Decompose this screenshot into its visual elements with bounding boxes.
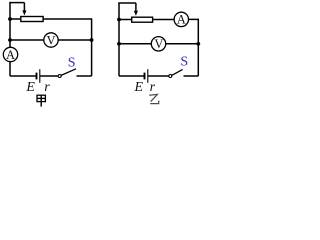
wire: slider arrow stem of rheostat R1 (甲) (23, 3, 25, 11)
battery E r (甲): long positive plate (39, 69, 41, 83)
wire: bottom row segment battery to switch (甲) (40, 75, 58, 77)
node: junction dot mid-left 甲 (8, 38, 12, 42)
svg-text:E: E (134, 80, 144, 95)
svg-text:A: A (177, 13, 186, 27)
label S of switch (乙) (180, 55, 188, 70)
wire: voltmeter row horizontal of 甲 (10, 39, 92, 41)
wire: bottom row right segment after switch (乙) (184, 75, 199, 77)
svg-text:r: r (150, 80, 156, 95)
wire: left vertical rail of circuit 乙 (118, 3, 120, 76)
label 乙 (drawn strokes) (149, 94, 159, 103)
switch S pivot contact (乙) (169, 75, 172, 78)
arrowhead of rheostat slider (乙) (134, 11, 138, 16)
svg-text:r: r (44, 80, 50, 95)
svg-text:S: S (180, 55, 188, 70)
wire: top row segment ammeter to right rail (乙) (188, 18, 198, 20)
switch S blade (乙) (172, 69, 183, 75)
ammeter A (乙) (174, 12, 188, 27)
battery E r (乙): long positive plate (147, 69, 149, 83)
ammeter A (甲) (3, 47, 17, 62)
svg-text:V: V (46, 33, 55, 47)
label 甲 (drawn strokes) (37, 95, 45, 106)
svg-text:E: E (25, 80, 35, 95)
node: junction dot mid-right 乙 (196, 42, 200, 46)
wire: top row right segment from rheostat to right rail (甲) (44, 18, 92, 20)
wire: slider arrow stem of rheostat R2 (乙) (135, 3, 137, 11)
node: junction dot top-left 乙 (117, 18, 121, 22)
wire: top row left segment to rheostat (甲) (10, 18, 21, 20)
label r of battery (乙) (150, 80, 156, 95)
wire: voltmeter row horizontal of 乙 (119, 43, 198, 45)
resistor (rheostat) R2 of 乙 (132, 17, 153, 22)
switch S blade (甲) (61, 69, 76, 76)
wire: slider feed top horizontal (up-and-over) of 乙 (118, 2, 136, 4)
label r of battery (甲) (44, 80, 50, 95)
wire: bottom row segment battery to switch (乙) (148, 75, 169, 77)
wire: top row left segment to rheostat (乙) (119, 19, 131, 21)
wire: bottom row right segment after switch (甲) (77, 75, 92, 77)
label E of battery (乙) (134, 80, 144, 95)
arrowhead of rheostat slider (甲) (22, 10, 26, 15)
wire: top row segment rheostat to ammeter (乙) (153, 19, 174, 21)
wire: right vertical rail of 乙 (197, 19, 199, 76)
wire: slider feed top horizontal (up-and-over) of 甲 (9, 2, 24, 4)
node: junction dot top-left 甲 (8, 17, 12, 21)
node: junction dot mid-left 乙 (117, 42, 121, 46)
wire: right vertical rail of 甲 (91, 18, 93, 76)
svg-text:A: A (6, 48, 15, 62)
label E of battery (甲) (25, 80, 35, 95)
resistor (rheostat) R1 of 甲 (21, 17, 43, 22)
wire: left vertical rail of circuit 甲 (9, 3, 11, 76)
svg-text:V: V (154, 37, 163, 51)
voltmeter V (甲) (44, 33, 58, 48)
battery E r (乙): short negative plate (144, 73, 146, 80)
label S of switch (甲) (68, 56, 76, 71)
battery E r (甲): short negative plate (36, 73, 38, 80)
wire: bottom row left segment to battery (甲) (10, 75, 37, 77)
voltmeter V (乙) (151, 37, 165, 52)
wire: bottom row left segment to battery (乙) (119, 75, 145, 77)
switch S pivot contact (甲) (58, 75, 61, 78)
svg-text:S: S (68, 56, 76, 71)
node: junction dot mid-right 甲 (90, 38, 94, 42)
